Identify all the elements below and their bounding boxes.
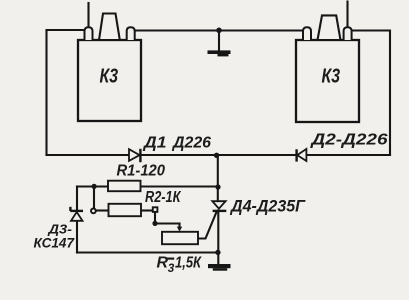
- svg-text:Д1: Д1: [142, 134, 167, 151]
- svg-text:Д3-: Д3-: [47, 222, 72, 237]
- svg-text:Д2-Д226: Д2-Д226: [309, 132, 387, 149]
- svg-text:Д4-Д235Г: Д4-Д235Г: [229, 198, 306, 216]
- svg-text:Д226: Д226: [171, 134, 212, 151]
- svg-text:R2-1К: R2-1К: [145, 189, 181, 206]
- svg-text:R1-120: R1-120: [117, 162, 166, 179]
- svg-text:1,5К: 1,5К: [175, 255, 202, 272]
- svg-text:К3: К3: [322, 65, 341, 87]
- svg-text:3: 3: [168, 263, 175, 275]
- svg-text:КС147: КС147: [34, 236, 76, 251]
- svg-text:К3: К3: [100, 65, 119, 87]
